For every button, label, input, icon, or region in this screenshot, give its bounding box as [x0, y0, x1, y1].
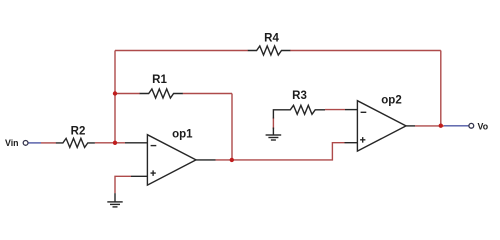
- svg-text:op1: op1: [172, 129, 193, 141]
- terminal Vin: [23, 141, 28, 146]
- svg-text:Vo: Vo: [478, 121, 489, 131]
- wire right vertical R4 down to output junction: [440, 51, 442, 126]
- wire R3 to op2 inverting input: [325, 109, 345, 111]
- ground (op1 noninverting input): [107, 193, 122, 207]
- svg-text:op2: op2: [381, 95, 401, 107]
- svg-text:R1: R1: [152, 74, 167, 86]
- svg-text:R3: R3: [292, 90, 307, 102]
- svg-text:Vin: Vin: [5, 138, 19, 148]
- wire op1 noninverting input to ground: [115, 176, 131, 193]
- wire R1 branch horizontal: [115, 93, 232, 95]
- wire op2 output to Vo junction: [415, 125, 444, 127]
- wire R2 to op1 inverting input: [95, 142, 125, 144]
- op-amp op1: [125, 135, 216, 185]
- resistor R2: [56, 138, 95, 147]
- wire R3 to ground vertical: [272, 118, 274, 130]
- junction node D (op2 output / Vo): [439, 124, 443, 128]
- ground (R3): [266, 128, 282, 141]
- svg-text:R4: R4: [264, 32, 279, 44]
- wire output junction to Vo terminal (blue): [444, 125, 469, 127]
- terminal Vo: [469, 123, 474, 128]
- resistor R1: [140, 89, 183, 98]
- wire R2 input segment: [41, 142, 56, 144]
- junction node C (op1 output): [230, 158, 234, 162]
- wire op1 output to op2 noninverting input: [216, 143, 345, 160]
- wire top feedback (R4 net) right segment: [290, 50, 441, 52]
- op-amp op2: [345, 101, 416, 151]
- wire Vin to R2 (blue terminal segment): [28, 142, 41, 144]
- wire top feedback (R4 net) left segment: [115, 50, 248, 52]
- junction node B (R2/op1 inverting input): [113, 141, 117, 145]
- resistor R4: [248, 46, 290, 55]
- wire R1 right vertical down to op1 output: [231, 94, 233, 160]
- svg-text:R2: R2: [71, 125, 86, 137]
- junction node A (R1/R4 tap): [113, 91, 117, 95]
- resistor R3: [273, 105, 325, 118]
- wire left vertical (node A down to Vin net): [114, 51, 116, 143]
